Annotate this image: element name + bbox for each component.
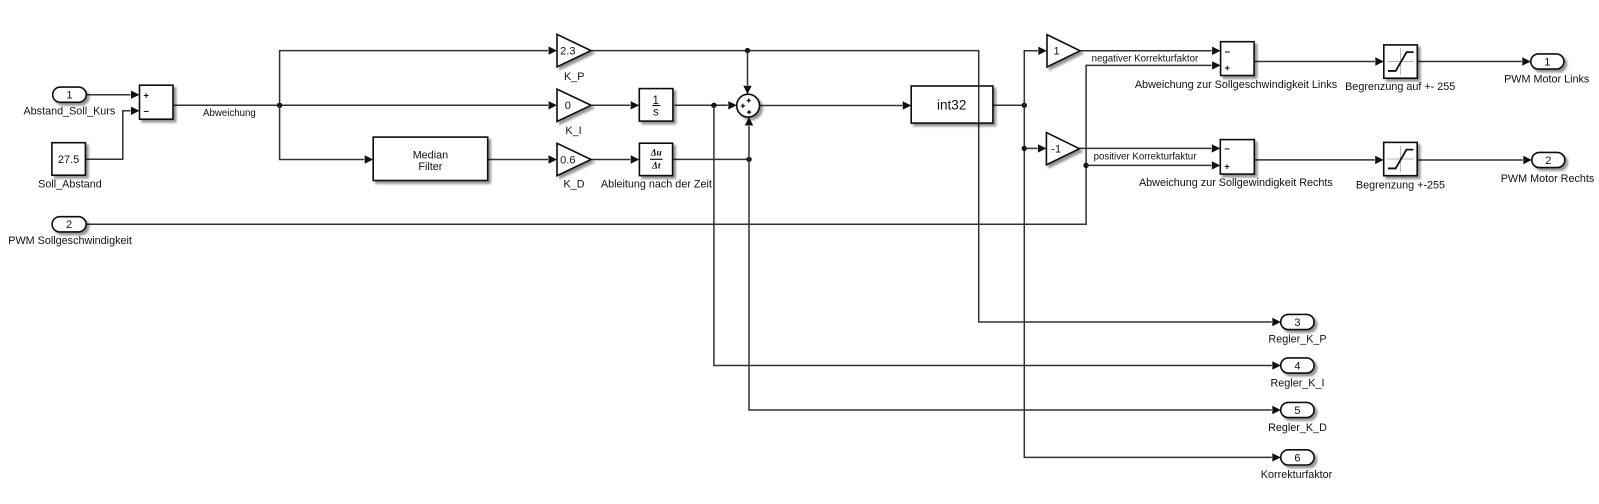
sum circle (PID summer)	[737, 94, 760, 117]
svg-text:2: 2	[66, 219, 72, 231]
wire integrator junction down to Regler_K_I output	[714, 105, 1272, 365]
svg-text:6: 6	[1294, 452, 1300, 464]
svg-text:−: −	[143, 107, 149, 118]
svg-text:+: +	[1225, 63, 1231, 74]
svg-text:27.5: 27.5	[58, 154, 79, 166]
gain -1 (positiver Korrekturfaktor)	[1046, 133, 1079, 165]
svg-text:0.6: 0.6	[560, 154, 575, 166]
svg-text:Filter: Filter	[418, 161, 442, 173]
node gain -1 input junction	[1022, 146, 1027, 151]
svg-text:Regler_K_I: Regler_K_I	[1270, 377, 1324, 389]
output port Out5 Regler_K_D	[1281, 402, 1314, 417]
svg-text:Begrenzung auf +- 255: Begrenzung auf +- 255	[1345, 81, 1455, 93]
input port In1	[53, 87, 86, 102]
saturation axes	[1387, 48, 1414, 75]
gain K_I (0)	[557, 89, 591, 121]
output port Out2 PWM Motor Rechts	[1532, 152, 1565, 167]
constant Soll_Abstand 27.5	[52, 143, 86, 176]
svg-text:2: 2	[1545, 155, 1551, 167]
svg-text:3: 3	[1294, 317, 1300, 329]
svg-text:5: 5	[1294, 405, 1300, 417]
wire Sum3 out to saturation 2	[1254, 159, 1374, 161]
sum block Sum2 (- +) links	[1221, 42, 1255, 76]
svg-text:Soll_Abstand: Soll_Abstand	[38, 178, 102, 190]
svg-text:Median: Median	[413, 150, 448, 162]
input port In2	[52, 217, 86, 232]
saturation block Begrenzung auf +- 255	[1384, 45, 1418, 78]
saturation curve	[1388, 150, 1414, 169]
svg-text:4: 4	[1294, 360, 1300, 372]
svg-text:1: 1	[1544, 56, 1550, 68]
svg-text:Abweichung zur Sollgeschwindig: Abweichung zur Sollgeschwindigkeit Links	[1135, 79, 1338, 91]
sum circle plus signs	[741, 104, 745, 108]
output port Out6 Korrekturfaktor	[1281, 450, 1314, 465]
svg-text:Ableitung nach der Zeit: Ableitung nach der Zeit	[601, 178, 712, 190]
svg-text:Regler_K_P: Regler_K_P	[1268, 334, 1326, 346]
output port Out4 Regler_K_I	[1281, 358, 1314, 373]
wire K_P junction down to sum circle top	[747, 51, 749, 86]
block Median Filter	[373, 137, 488, 180]
wire derivative junction down to Regler_K_D output	[749, 159, 1272, 410]
integrator block 1/s	[639, 89, 673, 122]
wire K_P out to Regler_K_P output	[591, 51, 1272, 322]
wire int32 out to Korrekturfaktor junction	[993, 104, 1025, 106]
svg-text:Abweichung: Abweichung	[203, 108, 256, 119]
derivative block du/dt	[639, 143, 672, 175]
svg-text:Abstand_Soll_Kurs: Abstand_Soll_Kurs	[23, 106, 115, 118]
svg-text:Δu: Δu	[650, 148, 662, 158]
svg-text:1: 1	[66, 90, 72, 102]
wire PWM Sollgeschwindigkeit to Sum2 + input	[87, 65, 1212, 224]
svg-text:2.3: 2.3	[560, 46, 575, 58]
svg-text:Begrenzung +-255: Begrenzung +-255	[1356, 179, 1445, 191]
svg-text:Regler_K_D: Regler_K_D	[1268, 422, 1327, 434]
node derivative output junction	[746, 157, 751, 162]
conversion block int32	[911, 86, 993, 123]
wire K_D gain to derivative block	[591, 159, 630, 161]
svg-text:negativer Korrekturfaktor: negativer Korrekturfaktor	[1092, 54, 1199, 65]
gain K_P (2.3)	[557, 34, 591, 66]
wire derivative out to junction	[673, 158, 749, 160]
wire Abweichung: Sum1 out to K_I gain	[173, 104, 548, 106]
wire derivative junction up to sum circle bottom	[748, 126, 750, 159]
saturation block Begrenzung +-255	[1384, 142, 1418, 175]
svg-text:PWM Motor Rechts: PWM Motor Rechts	[1501, 173, 1595, 185]
svg-text:Δt: Δt	[651, 161, 661, 171]
wire PWM junction to Sum3 + input	[1086, 164, 1211, 166]
svg-text:positiver Korrekturfaktur: positiver Korrekturfaktur	[1094, 152, 1198, 163]
svg-text:+: +	[143, 90, 149, 101]
svg-text:PWM Motor Links: PWM Motor Links	[1504, 74, 1590, 86]
wire integrator out to sum circle left	[675, 104, 728, 106]
svg-text:K_I: K_I	[565, 125, 581, 137]
svg-text:−: −	[1225, 47, 1231, 58]
sum block Sum3 (- +) rechts	[1220, 140, 1254, 175]
svg-text:0: 0	[565, 100, 571, 112]
gain K_D (0.6)	[557, 143, 591, 175]
output port Out3 Regler_K_P	[1281, 314, 1314, 329]
node PWM line junction	[1083, 163, 1088, 168]
wire gain 1 out to Sum2 - input (negativer Korrekturfaktor)	[1080, 50, 1212, 52]
svg-text:PWM Sollgeschwindigkeit: PWM Sollgeschwindigkeit	[8, 235, 132, 247]
svg-text:−: −	[1224, 144, 1230, 155]
svg-text:-1: -1	[1051, 144, 1061, 156]
gain 1 (negativer Korrekturfaktor)	[1047, 35, 1080, 67]
node Abweichung junction	[277, 103, 282, 108]
wire Abweichung branch down to Median Filter	[280, 105, 365, 159]
output port Out1 PWM Motor Links	[1531, 54, 1564, 69]
saturation axes	[1387, 146, 1414, 173]
wire saturation 2 to PWM Motor Rechts output	[1417, 159, 1523, 161]
wire Sum2 out to saturation 1	[1254, 61, 1375, 63]
wire junction to gain -1	[1024, 147, 1037, 149]
svg-text:+: +	[1224, 161, 1230, 172]
wire sum circle out to int32	[760, 105, 903, 107]
wire In1 to Sum1 + input	[86, 94, 130, 96]
node Korrekturfaktor junction	[1022, 103, 1027, 108]
wire junction down to Korrekturfaktor output	[1024, 105, 1272, 457]
wire junction up to gain 1	[1024, 51, 1038, 106]
wire Median Filter to K_D gain	[488, 159, 549, 161]
svg-text:K_D: K_D	[563, 178, 584, 190]
svg-text:Korrekturfaktor: Korrekturfaktor	[1261, 469, 1333, 481]
svg-text:int32: int32	[937, 98, 966, 113]
wire K_I gain to integrator	[591, 104, 630, 106]
svg-text:1: 1	[1053, 46, 1059, 58]
wire Soll_Abstand to Sum1 - input	[85, 111, 130, 159]
wire K_P out crossing over int32 block (overlay segment)	[978, 86, 980, 123]
node K_P output junction	[745, 48, 750, 53]
svg-text:s: s	[653, 106, 659, 118]
saturation curve	[1388, 52, 1414, 71]
wire gain -1 out to Sum3 - input (positiver Korrekturfaktur)	[1079, 147, 1211, 149]
node integrator output junction	[711, 103, 716, 108]
svg-text:K_P: K_P	[564, 71, 584, 83]
wire Abweichung branch up to K_P gain	[280, 51, 548, 106]
wire saturation 1 to PWM Motor Links output	[1417, 61, 1522, 63]
sum block Sum1 (+ -)	[140, 85, 174, 119]
svg-text:Abweichung zur Sollgewindigkei: Abweichung zur Sollgewindigkeit Rechts	[1139, 177, 1333, 189]
